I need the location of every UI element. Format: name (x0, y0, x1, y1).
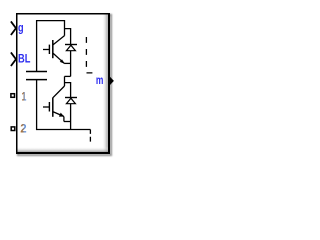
svg-text:BL: BL (18, 52, 30, 66)
wire: step to diode D2 (65, 83, 71, 98)
IGBT Q1 collector slant (53, 36, 65, 45)
wire: step to diode D1 (65, 29, 71, 44)
block border left (16, 13, 18, 154)
wire: bottom rail (36, 129, 90, 131)
IGBT Q2 emitter arrowhead (59, 113, 64, 117)
wire: midpoint lower link (65, 75, 71, 77)
capacitor C plate bottom (26, 79, 47, 81)
input port chevron g (11, 21, 16, 35)
IGBT Q2 gate lead (43, 106, 49, 108)
diode D2 cathode bar (65, 97, 77, 99)
output port arrow m (109, 76, 114, 86)
IGBT Q1 body bar (52, 40, 54, 58)
diode D1 triangle (66, 45, 75, 51)
block drop shadow (18, 15, 111, 155)
input port chevron BL (11, 52, 16, 66)
block inner bevel right (102, 15, 108, 153)
block border top (16, 13, 110, 15)
IGBT Q1 emitter arrowhead (60, 59, 65, 64)
block border right (108, 13, 110, 154)
port square 2 (11, 127, 15, 131)
block border bottom (16, 152, 110, 154)
wire: midpoint upper link (64, 62, 70, 64)
IGBT Q2 emitter slant (53, 112, 64, 117)
wire: capacitor top lead (36, 20, 38, 71)
IGBT Q2 collector slant (53, 86, 65, 98)
wire: lower collector drop (64, 76, 66, 86)
dashed terminal line bottom (89, 130, 91, 142)
port square 1 (11, 94, 15, 98)
svg-text:1: 1 (22, 89, 27, 103)
diode D2 triangle (66, 98, 75, 104)
wire: upper collector drop (64, 20, 66, 36)
IGBT Q1 gate bar (48, 45, 50, 54)
IGBT Q2 gate bar (48, 102, 50, 112)
wire: diode D2 anode lead (70, 104, 72, 130)
wire: top rail (36, 20, 65, 22)
svg-text:m: m (96, 73, 104, 87)
block body (16, 13, 110, 154)
dashed measurement line to m (86, 37, 92, 73)
wire: capacitor bottom lead (36, 80, 38, 130)
block inner bevel bottom (18, 147, 109, 152)
diode D1 cathode bar (65, 44, 77, 46)
capacitor C plate top (26, 71, 47, 73)
wire: diode D1 anode lead (70, 51, 72, 77)
svg-text:2: 2 (20, 122, 27, 136)
wire: emitter drop to bottom link (63, 117, 65, 122)
IGBT Q1 gate lead (43, 49, 49, 51)
svg-text:g: g (18, 20, 24, 34)
IGBT Q2 body bar (52, 98, 54, 117)
wire: bottom link to diode column (64, 121, 71, 123)
IGBT Q1 emitter slant (53, 53, 64, 63)
